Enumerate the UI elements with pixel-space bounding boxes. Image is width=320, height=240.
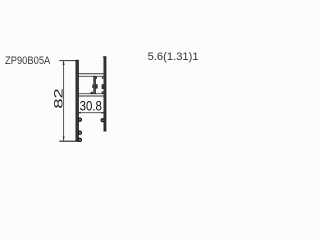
- dimension 30.8 arrow left: [76, 112, 81, 114]
- dimension 82 extension line top: [59, 60, 78, 62]
- divider bottom boss dot: [91, 92, 94, 95]
- screw channel ceiling hang left: [96, 76, 97, 79]
- box bottom inner line: [79, 93, 104, 95]
- svg-text:5.6(1.31)1: 5.6(1.31)1: [148, 51, 199, 63]
- box bottom outer line: [76, 95, 106, 97]
- dimension 82 arrow up: [63, 61, 65, 66]
- screw channel ceiling hang right: [102, 76, 103, 79]
- box top inner line: [79, 75, 104, 77]
- dimension 30.8 line: [77, 112, 105, 114]
- dimension 82 arrow down: [63, 137, 65, 142]
- svg-text:ZP90B05A: ZP90B05A: [5, 55, 51, 67]
- svg-text:30.8: 30.8: [80, 98, 102, 114]
- left wall boss circle 2: [78, 131, 81, 134]
- divider left notch: [92, 85, 94, 88]
- svg-text:82: 82: [52, 88, 65, 108]
- left wall boss circle 1: [78, 118, 81, 121]
- screw channel tab bottom right: [102, 92, 104, 94]
- dimension 30.8 arrow right: [101, 112, 106, 114]
- dimension 82 extension line bottom: [59, 140, 80, 142]
- profile left wall: [76, 60, 79, 141]
- profile right wall with top fin: [104, 57, 106, 132]
- box divider wall: [94, 76, 96, 93]
- fin top serif: [103, 56, 104, 58]
- dimension 82 line: [63, 61, 65, 141]
- box top outer line: [76, 73, 106, 75]
- screw channel tab right: [102, 84, 104, 89]
- right wall boss circle: [101, 119, 104, 122]
- left wall boss circle 3: [78, 138, 81, 141]
- screw channel tab left: [96, 84, 98, 88]
